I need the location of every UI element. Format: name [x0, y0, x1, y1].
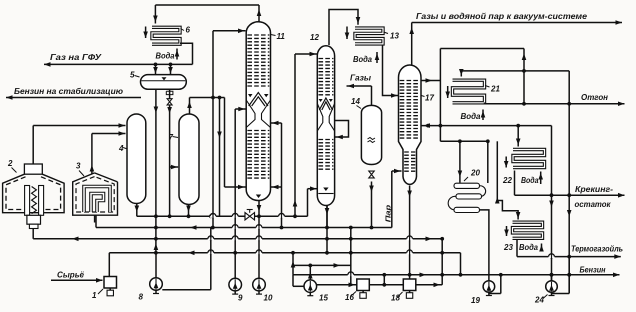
- svg-text:15: 15: [319, 294, 328, 303]
- svg-text:4: 4: [118, 144, 124, 153]
- svg-text:13: 13: [390, 32, 399, 41]
- svg-text:Вода: Вода: [519, 243, 538, 252]
- svg-text:5: 5: [130, 71, 135, 80]
- svg-text:Вода: Вода: [521, 176, 539, 185]
- svg-text:19: 19: [471, 296, 480, 305]
- svg-text:12: 12: [310, 33, 319, 42]
- svg-text:остаток: остаток: [575, 200, 612, 209]
- svg-text:Газы: Газы: [350, 74, 371, 83]
- svg-text:Вода: Вода: [461, 112, 481, 121]
- svg-text:22: 22: [502, 176, 512, 185]
- svg-text:21: 21: [490, 85, 500, 94]
- svg-text:24: 24: [534, 296, 544, 305]
- svg-text:Бензин на стабилизацию: Бензин на стабилизацию: [14, 86, 123, 96]
- svg-text:Сырьё: Сырьё: [57, 271, 84, 280]
- svg-text:14: 14: [351, 97, 360, 106]
- svg-text:3: 3: [76, 162, 81, 171]
- svg-text:23: 23: [503, 243, 513, 252]
- svg-text:Крекинг-: Крекинг-: [575, 185, 613, 194]
- svg-text:11: 11: [277, 32, 286, 41]
- svg-text:2: 2: [7, 159, 13, 168]
- svg-text:9: 9: [238, 294, 243, 303]
- svg-text:Вода: Вода: [156, 52, 175, 61]
- svg-text:Бензин: Бензин: [580, 266, 606, 275]
- svg-text:10: 10: [264, 294, 273, 303]
- svg-text:Газы и водяной пар к вакуум-си: Газы и водяной пар к вакуум-системе: [416, 12, 587, 21]
- svg-text:20: 20: [470, 169, 480, 178]
- svg-text:Отгон: Отгон: [581, 93, 608, 102]
- svg-text:Пар: Пар: [384, 204, 393, 222]
- svg-text:6: 6: [186, 26, 191, 35]
- svg-text:Газ на ГФУ: Газ на ГФУ: [50, 53, 103, 62]
- svg-text:8: 8: [139, 293, 144, 302]
- svg-text:1: 1: [92, 291, 97, 300]
- svg-text:7: 7: [169, 133, 174, 142]
- svg-text:17: 17: [425, 94, 434, 103]
- svg-text:Вода: Вода: [353, 55, 372, 64]
- svg-text:Термогазойль: Термогазойль: [571, 245, 623, 254]
